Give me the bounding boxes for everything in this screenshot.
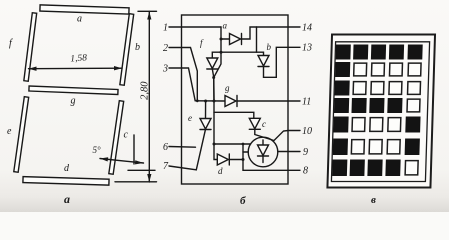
node d-cathode: [242, 158, 245, 161]
matrix dot r1c2 on: [354, 45, 368, 59]
c branch wire: [214, 112, 254, 118]
diode b: [258, 56, 269, 67]
angle 5 deg leader with arrows: [100, 159, 144, 164]
svg-text:б: б: [240, 195, 246, 207]
matrix dot r2c3 off: [371, 63, 384, 76]
matrix dot r2c4 off: [389, 63, 402, 76]
node bus-feeder: [213, 100, 216, 103]
svg-text:g: g: [225, 83, 230, 93]
diode c cathode wire to pin 10: [255, 129, 300, 140]
segment b (upper-right bar): [120, 14, 134, 86]
svg-text:3: 3: [162, 64, 168, 75]
segment g (middle bar): [29, 86, 118, 94]
matrix dot r1c4 on: [389, 45, 403, 59]
segment d (bottom bar): [23, 177, 109, 186]
svg-text:b: b: [135, 42, 140, 53]
pin 9 wire: [278, 151, 300, 153]
feeder vertical wire: [214, 101, 217, 160]
extension tick bottom: [115, 181, 157, 183]
pin 1 wire: [169, 26, 221, 28]
dimension 2,80 line: [148, 12, 150, 183]
diode e: [200, 119, 211, 130]
diode e anode lead: [205, 101, 207, 119]
svg-text:в: в: [371, 194, 376, 206]
matrix dot r5c2 off: [352, 118, 365, 132]
matrix dot r3c2 off: [353, 82, 366, 95]
svg-text:10: 10: [302, 126, 312, 137]
matrix dot r2c1 on: [336, 63, 350, 77]
matrix dot r3c3 off: [371, 82, 384, 95]
svg-text:1: 1: [163, 23, 168, 34]
svg-text:2: 2: [163, 43, 168, 54]
matrix dot r4c2 on: [352, 99, 366, 113]
svg-text:а: а: [64, 192, 70, 206]
matrix dot r6c2 off: [351, 140, 364, 154]
svg-text:11: 11: [302, 97, 311, 108]
matrix dot r2c5 off: [408, 63, 421, 76]
pin 7 wire: [169, 130, 205, 170]
matrix dot r6c3 off: [369, 140, 382, 154]
svg-text:14: 14: [302, 23, 312, 34]
diode a anode lead: [221, 38, 230, 40]
matrix dot r7c3 on: [368, 160, 382, 176]
matrix dot r3c4 off: [389, 82, 402, 95]
svg-text:2,80: 2,80: [139, 81, 150, 100]
matrix dot r1c1 on: [336, 45, 350, 59]
diode b anode wire: [221, 52, 264, 55]
matrix inner frame: [331, 42, 429, 182]
matrix dot r5c5 on: [406, 117, 420, 132]
node a-anode: [220, 38, 223, 41]
pin 3 wire: [169, 68, 195, 101]
svg-text:6: 6: [163, 142, 168, 153]
svg-text:g: g: [71, 96, 76, 107]
diode a cathode wire to pin 14: [242, 27, 301, 39]
segment a (top bar): [40, 5, 129, 14]
svg-text:9: 9: [303, 147, 308, 158]
matrix dot r6c4 off: [387, 140, 400, 154]
diode g: [225, 96, 236, 107]
matrix dot r1c5 on: [408, 45, 422, 59]
matrix dot r4c3 on: [370, 99, 384, 113]
anode rail from pin 1: [214, 27, 221, 101]
dimension 1,58 line: [29, 67, 123, 70]
segment f (upper-left bar): [24, 13, 37, 82]
svg-text:5°: 5°: [93, 145, 102, 155]
matrix dot r4c1 on: [334, 99, 348, 113]
svg-text:a: a: [77, 14, 82, 25]
node dots: [196, 38, 245, 162]
svg-text:e: e: [7, 126, 12, 137]
matrix dot r7c1 on: [333, 160, 347, 176]
node bus-left: [196, 99, 199, 102]
node f-anode: [220, 51, 223, 54]
pin 6 wire: [169, 146, 196, 149]
matrix dot r1c3 on: [371, 45, 385, 59]
matrix dot r3c5 off: [408, 82, 421, 95]
diode d cathode wire: [229, 159, 243, 161]
diode f: [207, 58, 218, 69]
matrix dot r5c4 off: [388, 118, 401, 132]
node dp-vert-top: [242, 143, 245, 146]
node bus-e: [204, 100, 207, 103]
diode a: [230, 34, 241, 45]
svg-text:1,58: 1,58: [70, 53, 88, 64]
matrix dot r7c2 on: [350, 160, 364, 176]
svg-text:a: a: [223, 21, 228, 31]
diode c: [249, 118, 260, 129]
matrix dot r5c3 off: [370, 118, 383, 132]
matrix dot r4c4 on: [388, 99, 402, 113]
segment c (lower-right bar): [109, 101, 124, 175]
segment e (lower-left bar): [14, 97, 29, 173]
diode d: [217, 154, 228, 165]
svg-text:13: 13: [302, 43, 312, 54]
extension tick top: [138, 10, 157, 12]
angle 5 deg reference line: [133, 135, 135, 164]
dp anode stub: [243, 151, 248, 153]
junction wire dp: [242, 144, 244, 160]
svg-text:e: e: [188, 113, 192, 123]
svg-text:c: c: [262, 119, 266, 129]
schematic box: [182, 15, 289, 184]
svg-text:d: d: [218, 166, 223, 176]
matrix dot r2c2 off: [354, 63, 367, 76]
svg-text:c: c: [124, 130, 129, 141]
wire b-anode to pin 14 line: [256, 27, 258, 52]
diode g cathode wire to pin 11: [237, 100, 300, 102]
dp branch wire: [214, 143, 251, 145]
svg-text:b: b: [267, 42, 272, 52]
matrix dot r7c5 off: [405, 161, 418, 175]
bus wire to diode g: [195, 100, 225, 102]
pin 2 wire: [169, 48, 197, 101]
matrix dot r4c5 off: [407, 99, 420, 112]
matrix dot r6c5 on: [405, 139, 419, 155]
matrix dot r7c4 on: [386, 160, 400, 176]
matrix dot r5c1 on: [334, 117, 348, 132]
matrix dot r3c1 on: [335, 81, 349, 95]
node dp-branch: [213, 143, 216, 146]
dp circle diode: [248, 137, 278, 167]
node rail-f: [212, 76, 215, 79]
diode b cathode wire to pin 13: [264, 47, 301, 77]
wire to pin 8: [243, 160, 300, 171]
diode f anode lead: [212, 52, 221, 58]
matrix outer frame: [327, 35, 435, 188]
diode f cathode lead: [212, 69, 214, 101]
matrix dot r6c1 on: [333, 139, 347, 155]
extension line c-bottom: [128, 169, 155, 171]
svg-text:8: 8: [303, 166, 308, 177]
